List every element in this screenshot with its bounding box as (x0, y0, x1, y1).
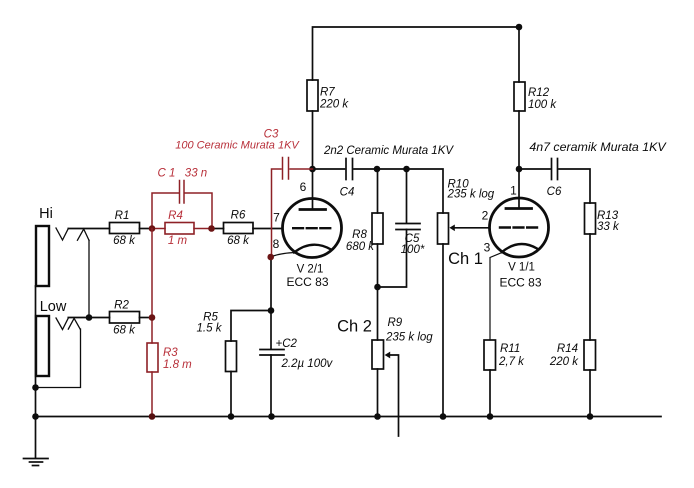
svg-text:R2: R2 (114, 300, 129, 312)
wire R3 to bus (151, 372, 153, 417)
wire R10 bottom to bus (442, 244, 444, 417)
svg-text:R4: R4 (168, 210, 183, 222)
wire R1 to node (140, 228, 153, 230)
wire C6 left (519, 168, 550, 170)
svg-text:C4: C4 (340, 187, 355, 199)
triode V2/1 envelope (283, 199, 342, 258)
wire R2 to node (140, 317, 153, 319)
capacitor C4 (345, 159, 347, 180)
svg-text:1: 1 (510, 184, 517, 198)
jack Low body (36, 316, 49, 376)
node plate junction V2/1 (309, 166, 316, 173)
wire R10 wiper to grid V1/1 (455, 227, 490, 229)
node C5 top (403, 166, 410, 173)
svg-text:100 Ceramic Murata 1KV: 100 Ceramic Murata 1KV (175, 140, 300, 152)
node bus R5 (228, 413, 235, 420)
svg-text:1.8 m: 1.8 m (163, 359, 192, 371)
red subcircuit (147, 158, 313, 420)
svg-text:R14: R14 (557, 343, 578, 355)
svg-text:68 k: 68 k (227, 235, 250, 247)
wire V2/1 cathode pin8 (270, 253, 295, 258)
svg-text:R12: R12 (528, 87, 550, 99)
node R8 top (374, 166, 381, 173)
resistor R13 (585, 203, 596, 234)
node R8 C5 R9 junction (374, 284, 381, 291)
resistor R8 (377, 169, 379, 213)
wire ground bus (36, 416, 662, 418)
potentiometer R9 (377, 287, 379, 340)
wire R4 right (194, 228, 212, 230)
node R5 C2 junction (268, 307, 275, 314)
svg-text:Ch 2: Ch 2 (337, 318, 372, 336)
svg-text:4n7 ceramik Murata 1KV: 4n7 ceramik Murata 1KV (529, 140, 667, 154)
node R2 R3 (149, 314, 156, 321)
wire Hi tip to R1 (68, 228, 109, 230)
svg-text:220 k: 220 k (549, 356, 579, 368)
svg-text:68 k: 68 k (113, 235, 136, 247)
svg-text:C6: C6 (547, 186, 562, 198)
jack Low tip contact (56, 318, 68, 330)
svg-text:Low: Low (40, 299, 67, 315)
svg-text:680 k: 680 k (346, 241, 375, 253)
capacitor C1 loop (152, 193, 179, 229)
node V1/1 plate junction (516, 166, 523, 173)
svg-text:1.5 k: 1.5 k (197, 323, 223, 335)
node pin8 red (267, 254, 274, 261)
node bus C2 (268, 413, 275, 420)
svg-text:R7: R7 (320, 87, 335, 99)
wire jack sleeve down (35, 286, 37, 417)
wire to R5 (231, 311, 271, 342)
resistor R6 (224, 223, 254, 234)
wire V1/1 plate lead pin1 (518, 169, 520, 208)
triode V1/1 envelope (490, 198, 549, 257)
wire supply rail top (313, 27, 520, 82)
capacitor C2 (260, 349, 284, 351)
svg-text:235 k log: 235 k log (385, 332, 433, 344)
wire V2/1 plate lead pin6 (312, 169, 314, 208)
jack Hi switch contact (77, 229, 89, 240)
wire C4 left (313, 168, 345, 170)
svg-text:68 k: 68 k (113, 325, 136, 337)
resistor R3 (147, 343, 158, 372)
node R3 bus (149, 413, 156, 420)
wire Low tip to R2 (68, 317, 109, 319)
grid V2/1 dashed (293, 227, 331, 229)
svg-text:+C2: +C2 (276, 338, 298, 350)
node R4 R6 (208, 225, 215, 232)
wire C5 bottom (378, 230, 407, 288)
node R1 R4 (149, 225, 156, 232)
svg-text:R8: R8 (352, 229, 367, 241)
svg-text:8: 8 (273, 237, 280, 251)
cathode V1/1 (502, 244, 537, 252)
wire R7 bottom lead (312, 111, 314, 169)
svg-text:1 m: 1 m (168, 235, 188, 247)
svg-text:2.2µ 100v: 2.2µ 100v (281, 358, 334, 370)
svg-text:2,7 k: 2,7 k (498, 356, 525, 368)
wire C3 right to plate node (290, 168, 313, 170)
svg-text:33 n: 33 n (185, 168, 207, 180)
svg-text:V 2/1: V 2/1 (297, 264, 324, 276)
svg-text:100*: 100* (401, 244, 425, 256)
svg-text:220 k: 220 k (319, 99, 349, 111)
svg-text:R1: R1 (115, 210, 130, 222)
wire R9 wiper down (390, 355, 399, 436)
svg-text:R6: R6 (231, 210, 246, 222)
anode plate V1/1 (506, 207, 532, 210)
capacitor C5 (406, 169, 408, 223)
svg-text:3: 3 (484, 241, 491, 255)
node sleeve low junction (32, 384, 39, 391)
node bus R11 (487, 413, 494, 420)
node Low tip junction (86, 314, 93, 321)
anode plate V2/1 (300, 208, 326, 211)
svg-text:33 k: 33 k (597, 221, 620, 233)
svg-text:100 k: 100 k (528, 99, 557, 111)
wire low jack switch to sleeve (36, 329, 81, 388)
wire R8 bottom (377, 244, 379, 287)
svg-text:R3: R3 (163, 347, 178, 359)
jack Low switch contact (68, 318, 80, 329)
capacitor C6 (551, 159, 553, 180)
resistor R14 (584, 340, 596, 370)
svg-text:R9: R9 (388, 317, 403, 329)
svg-text:ECC 83: ECC 83 (286, 275, 328, 289)
wire C4 right to R10 top (354, 169, 443, 213)
node supply rail right junction (516, 24, 523, 31)
resistor R5 (226, 341, 237, 372)
svg-text:ECC 83: ECC 83 (499, 276, 541, 290)
wire R1 node down to R3 (151, 229, 153, 344)
svg-text:7: 7 (273, 211, 280, 225)
wire R12 bottom lead (518, 111, 520, 169)
resistor R1 (110, 223, 140, 234)
jack Hi body (36, 226, 49, 286)
wire R4 to R6 black part (212, 228, 224, 230)
svg-text:235 k log: 235 k log (447, 189, 495, 201)
wire V1/1 cathode pin3 to R11 (490, 253, 502, 341)
resistor R11 (484, 340, 496, 370)
ground (35, 417, 37, 459)
capacitor C3 (282, 158, 284, 180)
cathode V2/1 (294, 245, 331, 253)
svg-text:2n2 Ceramic Murata 1KV: 2n2 Ceramic Murata 1KV (323, 145, 454, 157)
wire Hi switch down to Low tip (88, 240, 90, 317)
wire C6 right to R13 (559, 169, 590, 203)
node bus jacks (32, 413, 39, 420)
node bus R9 (374, 413, 381, 420)
svg-text:2: 2 (482, 209, 489, 223)
jack Hi tip contact (56, 228, 68, 240)
svg-text:C 1: C 1 (158, 168, 176, 180)
svg-text:V 1/1: V 1/1 (508, 262, 535, 274)
resistor R12 (514, 82, 525, 111)
wire grid V2/1 from R6 (253, 228, 283, 230)
node bus R14 (587, 413, 594, 420)
resistor R4 (165, 223, 194, 235)
wire C3 left down to pin8 (272, 169, 282, 257)
wire node to R4 (152, 228, 165, 230)
resistor R2 (110, 312, 140, 324)
grid V1/1 dashed (500, 226, 538, 228)
svg-text:Ch 1: Ch 1 (448, 250, 483, 268)
wire R13 to R14 (589, 234, 591, 340)
node bus R10 (440, 413, 447, 420)
svg-text:Hi: Hi (39, 206, 53, 222)
svg-text:6: 6 (300, 180, 307, 194)
resistor R7 (307, 80, 318, 111)
svg-text:R11: R11 (500, 343, 520, 355)
potentiometer R10 (438, 213, 449, 244)
wire pin8 node down (270, 257, 272, 349)
